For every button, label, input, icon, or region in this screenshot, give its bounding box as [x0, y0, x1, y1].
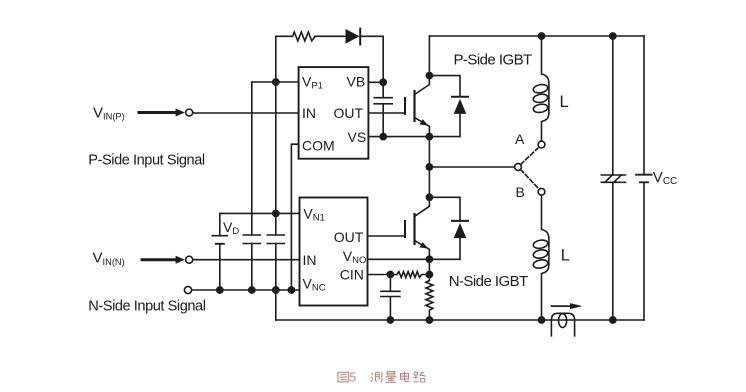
wire main column mid	[428, 137, 430, 198]
node VNC rail 3	[272, 286, 280, 294]
wire VNO row	[368, 258, 430, 260]
svg-text:VIN(P): VIN(P)	[93, 104, 125, 121]
wire VS row	[368, 136, 429, 138]
resistor R2 horizontal	[397, 272, 430, 278]
wire main column top	[428, 36, 430, 76]
svg-text:VNO: VNO	[343, 248, 367, 266]
node P collector	[426, 72, 434, 80]
svg-text:OUT: OUT	[334, 229, 364, 245]
wire COM branch	[291, 144, 298, 290]
node VS junction	[379, 133, 387, 141]
node P emitter	[426, 133, 434, 141]
node top rail cap	[609, 32, 617, 40]
wire IN P row	[193, 112, 299, 114]
svg-text:IN: IN	[303, 252, 317, 268]
node N-side common open circle	[184, 286, 191, 293]
inductor L1 upper	[542, 36, 549, 141]
node CIN right	[426, 271, 434, 279]
node bottom rail L	[538, 316, 546, 324]
wire left cap branch from VP1	[251, 82, 253, 235]
capacitor C5 electrolytic	[612, 36, 614, 175]
node switch common open circle	[515, 164, 522, 171]
svg-text:5: 5	[349, 370, 356, 384]
node CIN left	[387, 271, 395, 279]
wire phase row to switch	[429, 166, 514, 168]
caption figure 5	[338, 370, 425, 384]
wire VP1 junction branch down	[275, 82, 277, 235]
wire OUT P to gate	[368, 112, 405, 114]
svg-text:VCC: VCC	[653, 169, 677, 187]
svg-text:VNC: VNC	[303, 276, 326, 294]
wire CIN row	[368, 274, 397, 276]
wire VB pin	[368, 81, 383, 83]
node A open circle	[538, 141, 545, 148]
transistor Q2 N-side IGBT	[415, 197, 430, 216]
wire main column to CIN row	[428, 259, 430, 280]
op-amp U1 P-side gate driver box	[299, 67, 369, 159]
wire VNC to bottom rail	[275, 290, 277, 320]
node VIN(N) input arrow	[142, 258, 177, 261]
glyph dian	[401, 371, 410, 381]
node bottom rail cap	[387, 316, 395, 324]
wire bootstrap loop up	[276, 36, 293, 82]
glyph tu	[338, 372, 349, 382]
wire VN1 row	[220, 212, 300, 214]
wire VP1 row	[252, 81, 299, 83]
resistor R1	[293, 32, 316, 41]
node phase	[426, 163, 434, 171]
capacitor C4 CIN	[381, 275, 400, 321]
svg-text:L: L	[560, 93, 569, 111]
glyph lu	[413, 372, 425, 382]
svg-text:VB: VB	[347, 74, 366, 90]
node VB junction	[379, 78, 387, 86]
capacitor C2	[267, 235, 284, 244]
svg-text:P-Side Input Signal: P-Side Input Signal	[88, 153, 205, 169]
wire IN N row	[193, 259, 300, 261]
node VN1 junction	[272, 210, 280, 218]
node bottom rail cap2	[609, 316, 617, 324]
node N collector	[426, 193, 434, 201]
svg-text:B: B	[516, 184, 525, 200]
wire	[360, 36, 383, 82]
wire VNC row	[192, 289, 300, 291]
wire OUT N to gate	[368, 235, 406, 237]
current transformer CT	[551, 313, 574, 336]
wire dashed switch to B	[521, 170, 539, 189]
diode D2 P-side freewheel	[429, 76, 460, 97]
svg-text:P-Side IGBT: P-Side IGBT	[454, 51, 533, 68]
resistor R3 vertical	[426, 281, 433, 321]
node B open circle	[538, 188, 545, 195]
node bottom rail res	[426, 316, 434, 324]
wire dashed switch to A	[521, 147, 539, 164]
svg-text:IN: IN	[302, 105, 316, 121]
capacitor C3 bootstrap	[374, 82, 392, 136]
svg-text:VS: VS	[348, 129, 367, 145]
svg-text:OUT: OUT	[334, 105, 364, 121]
wire current arrow	[552, 305, 571, 307]
op-amp U2 N-side gate driver box	[300, 198, 368, 306]
svg-text:COM: COM	[302, 137, 335, 153]
capacitor C1	[243, 235, 260, 244]
battery VCC	[643, 36, 645, 175]
node VP1 junction	[272, 78, 280, 86]
node VIN(P) input arrow	[139, 111, 177, 114]
wire	[315, 35, 345, 37]
svg-text:N-Side IGBT: N-Side IGBT	[449, 273, 528, 290]
node top rail L	[538, 32, 546, 40]
svg-text:VIN(N): VIN(N)	[93, 250, 125, 267]
diode D3 N-side freewheel	[429, 197, 460, 221]
diode D1 bootstrap	[346, 29, 360, 44]
node VNC rail 4	[288, 286, 296, 294]
glyph liang	[385, 371, 396, 382]
battery VD	[219, 213, 221, 235]
svg-text:CIN: CIN	[340, 267, 364, 283]
svg-text:A: A	[515, 131, 525, 147]
inductor L2 lower	[542, 195, 549, 320]
node VNC rail 2	[248, 286, 256, 294]
node N emitter	[426, 255, 434, 263]
svg-text:VN1: VN1	[303, 205, 325, 223]
transistor Q1 P-side IGBT	[415, 76, 430, 95]
glyph ce	[371, 372, 382, 382]
wire bottom rail	[276, 319, 644, 321]
wire top rail	[429, 35, 644, 37]
svg-text:N-Side Input Signal: N-Side Input Signal	[88, 299, 205, 315]
node VNC rail 1	[216, 286, 224, 294]
svg-text:L: L	[561, 246, 570, 264]
svg-text:VP1: VP1	[302, 74, 323, 92]
svg-text:VD: VD	[223, 219, 239, 237]
